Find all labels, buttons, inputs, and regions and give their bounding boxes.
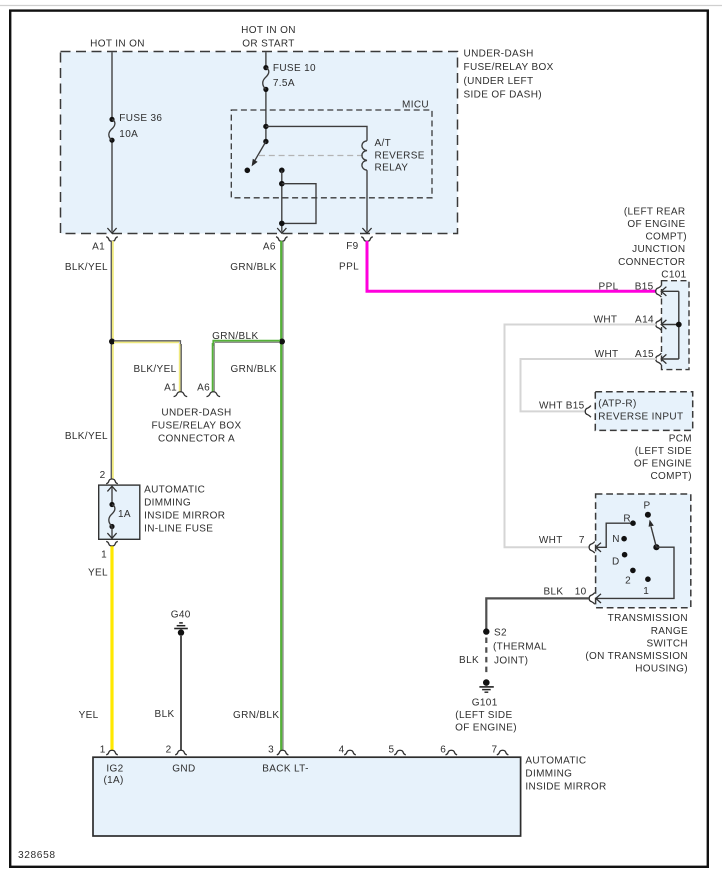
svg-text:WHT: WHT [595, 349, 619, 360]
svg-text:CONNECTOR: CONNECTOR [618, 257, 685, 268]
svg-text:UNDER-DASH: UNDER-DASH [161, 408, 231, 419]
svg-text:BLK/YEL: BLK/YEL [65, 431, 108, 442]
svg-text:2: 2 [100, 470, 106, 481]
svg-text:RELAY: RELAY [375, 163, 409, 174]
switch arm pivot [653, 544, 659, 550]
relay actuation dashed link [259, 155, 364, 157]
svg-text:FUSE 36: FUSE 36 [119, 113, 162, 124]
svg-text:COMPT): COMPT) [645, 232, 687, 243]
PCM (ATP-R) reverse input box [595, 392, 692, 431]
C101 pin B15 cup [656, 286, 662, 298]
svg-text:A6: A6 [263, 241, 276, 252]
svg-text:3: 3 [268, 744, 274, 755]
contact R [630, 520, 636, 526]
svg-text:4: 4 [339, 744, 345, 755]
junction dot BLK/YEL [109, 339, 115, 345]
switch arm toward P [651, 527, 656, 548]
C101 pin B15 arrow [661, 287, 666, 296]
svg-text:PPL: PPL [339, 261, 359, 272]
svg-text:2: 2 [625, 576, 631, 587]
svg-text:BLK/YEL: BLK/YEL [133, 364, 176, 375]
svg-text:AUTOMATIC: AUTOMATIC [525, 755, 586, 766]
in-line fuse box [99, 485, 140, 539]
pin F9 exit arrow [362, 228, 371, 233]
wire BLK/YEL A1 to in-line fuse [110, 241, 112, 479]
svg-text:R: R [623, 513, 630, 524]
svg-text:GRN/BLK: GRN/BLK [230, 262, 276, 273]
svg-text:(LEFT SIDE: (LEFT SIDE [635, 446, 692, 457]
wire YEL to mirror pin 1 [110, 546, 113, 750]
C101 pin A14 arrow [661, 320, 666, 329]
splice S2 (thermal joint) [483, 628, 489, 634]
pin A1 connector cup [106, 237, 118, 242]
C101 pin A15 arrow [661, 354, 666, 363]
svg-text:7: 7 [579, 535, 585, 546]
fuse F36 [109, 117, 114, 122]
relay contact arm [263, 139, 268, 144]
svg-text:7: 7 [491, 744, 497, 755]
relay coil A/T reverse relay [362, 141, 367, 170]
svg-text:G40: G40 [171, 610, 191, 621]
svg-text:(UNDER LEFT: (UNDER LEFT [464, 76, 534, 87]
wire WHT A14 to range switch pin 7 [505, 325, 657, 548]
svg-text:DIMMING: DIMMING [144, 498, 191, 509]
svg-text:HOUSING): HOUSING) [635, 663, 688, 674]
svg-text:OF ENGINE: OF ENGINE [634, 459, 692, 470]
svg-text:YEL: YEL [88, 567, 108, 578]
svg-text:G101: G101 [472, 698, 498, 709]
svg-text:OF ENGINE: OF ENGINE [627, 219, 685, 230]
svg-text:DIMMING: DIMMING [525, 768, 572, 779]
pin A6 exit arrow [277, 228, 286, 233]
wire fuse10 feed (vertical, x=265.9) [265, 52, 267, 66]
svg-text:C101: C101 [661, 269, 686, 280]
top gray rule [0, 5, 722, 7]
contact 2 [630, 568, 636, 574]
svg-text:PCM: PCM [669, 433, 692, 444]
svg-text:BLK: BLK [459, 655, 479, 666]
contact D [622, 552, 628, 558]
svg-text:YEL: YEL [79, 710, 99, 721]
wire WHT A15 to PCM B15 [521, 359, 657, 411]
svg-text:OR START: OR START [242, 38, 294, 49]
TRS pin 7 cup [589, 542, 595, 554]
svg-text:N: N [612, 534, 619, 545]
svg-text:(LEFT REAR: (LEFT REAR [624, 207, 686, 218]
in-line fuse element 1A [107, 486, 116, 491]
contact 1 [645, 576, 651, 582]
svg-text:D: D [612, 556, 619, 567]
svg-text:GND: GND [172, 763, 195, 774]
transmission range switch box [596, 494, 691, 608]
svg-text:S2: S2 [494, 628, 507, 639]
svg-text:A/T: A/T [375, 138, 392, 149]
svg-text:(LEFT SIDE: (LEFT SIDE [455, 710, 512, 721]
svg-text:F9: F9 [346, 241, 358, 252]
svg-text:1: 1 [643, 586, 649, 597]
svg-text:10A: 10A [119, 129, 138, 140]
svg-text:P: P [643, 500, 650, 511]
svg-text:REVERSE INPUT: REVERSE INPUT [598, 411, 683, 422]
svg-text:WHT: WHT [594, 315, 618, 326]
wire BLK pin 10 to S2 [486, 598, 589, 629]
svg-text:IN-LINE FUSE: IN-LINE FUSE [144, 523, 213, 534]
svg-text:(ATP-R): (ATP-R) [598, 398, 636, 409]
wire GRN/BLK branch to connector A pin A6 [213, 341, 280, 346]
svg-text:BLK: BLK [543, 587, 563, 598]
svg-text:10: 10 [575, 587, 587, 598]
svg-text:A15: A15 [635, 349, 654, 360]
wire BLK/YEL branch to connector A pin A1 [114, 341, 180, 346]
svg-text:GRN/BLK: GRN/BLK [230, 364, 276, 375]
C101 internal bus [678, 291, 680, 359]
svg-text:OF ENGINE): OF ENGINE) [455, 723, 517, 734]
svg-text:SWITCH: SWITCH [646, 638, 688, 649]
wire BLK dashed to G101 [485, 638, 487, 676]
fuse F10 [263, 65, 268, 70]
C101 pin A15 cup [656, 353, 662, 365]
svg-text:AUTOMATIC: AUTOMATIC [144, 485, 205, 496]
svg-text:GRN/BLK: GRN/BLK [212, 331, 258, 342]
svg-text:FUSE/RELAY BOX: FUSE/RELAY BOX [464, 62, 554, 73]
svg-text:PPL: PPL [599, 281, 619, 292]
svg-text:(THERMAL: (THERMAL [493, 642, 547, 653]
svg-text:FUSE 10: FUSE 10 [273, 63, 316, 74]
svg-text:INSIDE MIRROR: INSIDE MIRROR [525, 781, 606, 792]
svg-text:JOINT): JOINT) [494, 656, 528, 667]
svg-text:RANGE: RANGE [651, 626, 688, 637]
wire BLK G40 to mirror pin 2 [180, 635, 182, 750]
pin A1 exit arrow [107, 228, 116, 233]
svg-text:JUNCTION: JUNCTION [632, 244, 685, 255]
TRS pin 10 cup [589, 593, 595, 605]
C101 pin A14 cup [656, 319, 662, 331]
pin A6 connector cup [276, 237, 288, 242]
svg-text:A6: A6 [197, 382, 210, 393]
svg-text:HOT IN ON: HOT IN ON [241, 25, 296, 36]
svg-text:UNDER-DASH: UNDER-DASH [464, 48, 534, 59]
svg-text:A14: A14 [635, 315, 654, 326]
ground G101 [483, 679, 490, 686]
svg-text:1: 1 [100, 744, 106, 755]
svg-text:FUSE/RELAY BOX: FUSE/RELAY BOX [151, 421, 241, 432]
relay NO contact / A6 branch [279, 168, 285, 174]
svg-text:INSIDE MIRROR: INSIDE MIRROR [144, 510, 225, 521]
svg-text:COMPT): COMPT) [650, 471, 692, 482]
svg-text:6: 6 [440, 744, 446, 755]
svg-text:REVERSE: REVERSE [375, 150, 425, 161]
svg-text:WHT B15: WHT B15 [539, 400, 585, 411]
svg-text:1A: 1A [118, 509, 131, 520]
svg-text:BLK: BLK [155, 709, 175, 720]
svg-text:IG2: IG2 [106, 763, 123, 774]
MICU box [231, 110, 432, 198]
relay NC contact [245, 168, 251, 174]
svg-text:1: 1 [101, 550, 107, 561]
svg-text:A1: A1 [92, 241, 105, 252]
contact P [645, 512, 651, 518]
wire PPL F9 to C101 B15 [367, 241, 656, 291]
TRS pin 7 arrow [596, 543, 601, 552]
under-dash fuse/relay box [61, 52, 458, 234]
svg-text:BLK/YEL: BLK/YEL [65, 262, 108, 273]
svg-text:7.5A: 7.5A [273, 78, 295, 89]
junction (relay coil tap) [263, 124, 268, 129]
svg-text:SIDE OF DASH): SIDE OF DASH) [464, 89, 542, 100]
junction dot GRN/BLK [279, 339, 285, 345]
contact N [621, 536, 627, 542]
svg-text:5: 5 [388, 744, 394, 755]
svg-text:WHT: WHT [539, 535, 563, 546]
automatic dimming inside mirror box [93, 757, 521, 836]
svg-text:A1: A1 [164, 382, 177, 393]
in-line fuse pin 1 cup [106, 541, 118, 546]
wire to relay coil [266, 126, 367, 140]
svg-text:CONNECTOR A: CONNECTOR A [158, 434, 235, 445]
svg-text:BACK LT-: BACK LT- [262, 763, 309, 774]
svg-text:(1A): (1A) [103, 775, 123, 786]
wire A1 feed (vertical, x=112) [111, 52, 113, 118]
TRS pin 10 arrow [596, 594, 601, 603]
TRS pin 7 to R contact [596, 523, 633, 547]
switch arm to pin 10 [596, 547, 674, 598]
wire GRN/BLK A6 down to mirror [280, 241, 282, 751]
pin F9 connector cup [361, 237, 373, 242]
svg-text:328658: 328658 [18, 850, 56, 861]
svg-text:TRANSMISSION: TRANSMISSION [608, 613, 688, 624]
junction connector C101 box [662, 281, 690, 370]
svg-text:2: 2 [166, 744, 172, 755]
svg-text:GRN/BLK: GRN/BLK [233, 710, 279, 721]
svg-text:MICU: MICU [402, 99, 429, 110]
svg-text:B15: B15 [635, 281, 654, 292]
svg-text:(ON TRANSMISSION: (ON TRANSMISSION [585, 651, 688, 662]
svg-text:HOT IN ON: HOT IN ON [90, 38, 145, 49]
